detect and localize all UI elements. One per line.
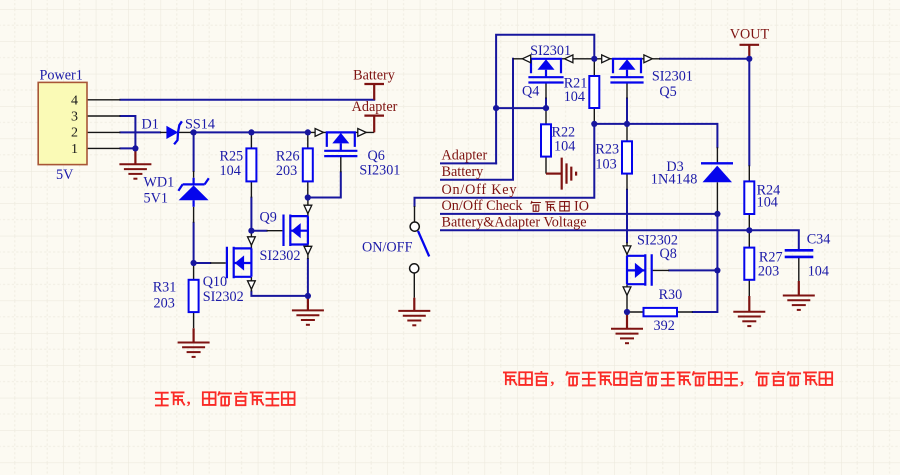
svg-text:3: 3 <box>71 110 78 125</box>
svg-text:SI2301: SI2301 <box>530 43 571 59</box>
svg-text:VOUT: VOUT <box>730 27 770 43</box>
svg-text:R30: R30 <box>659 287 683 303</box>
svg-text:203: 203 <box>276 163 297 179</box>
svg-text:103: 103 <box>595 157 616 173</box>
svg-text:SI2301: SI2301 <box>652 69 693 85</box>
svg-text:On/Off Key: On/Off Key <box>442 182 518 198</box>
svg-text:R23: R23 <box>595 142 619 158</box>
svg-text:2: 2 <box>71 126 78 141</box>
svg-text:WD1: WD1 <box>144 175 175 191</box>
svg-text:Q5: Q5 <box>659 84 676 100</box>
svg-text:,: , <box>187 391 191 408</box>
svg-text:,: , <box>740 371 744 388</box>
svg-text:104: 104 <box>554 139 575 155</box>
svg-text:Q6: Q6 <box>368 148 385 164</box>
svg-text:C34: C34 <box>807 232 831 248</box>
svg-text:Q10: Q10 <box>203 274 227 290</box>
svg-text:IO: IO <box>574 198 589 214</box>
svg-text:392: 392 <box>654 318 675 334</box>
svg-text:Q9: Q9 <box>260 209 277 225</box>
svg-text:5V: 5V <box>56 167 74 183</box>
svg-text:SI2301: SI2301 <box>359 163 400 179</box>
svg-text:Adapter: Adapter <box>442 147 488 163</box>
svg-text:SS14: SS14 <box>185 117 215 133</box>
svg-text:Battery: Battery <box>353 67 396 83</box>
svg-text:D1: D1 <box>142 117 159 133</box>
svg-text:Battery: Battery <box>442 164 485 180</box>
svg-text:104: 104 <box>808 264 829 280</box>
svg-text:5V1: 5V1 <box>144 191 168 207</box>
svg-text:SI2302: SI2302 <box>203 289 244 305</box>
svg-text:Power1: Power1 <box>40 68 83 84</box>
svg-text:Adapter: Adapter <box>352 99 398 115</box>
svg-text:203: 203 <box>758 264 779 280</box>
svg-text:104: 104 <box>757 195 778 211</box>
svg-text:Battery&Adapter Voltage: Battery&Adapter Voltage <box>442 214 587 230</box>
svg-text:On/Off Check: On/Off Check <box>442 198 524 214</box>
svg-text:203: 203 <box>154 296 175 312</box>
svg-text:,: , <box>550 371 554 388</box>
svg-text:104: 104 <box>564 89 585 105</box>
svg-text:Q4: Q4 <box>522 84 539 100</box>
svg-text:4: 4 <box>71 93 78 108</box>
svg-text:SI2302: SI2302 <box>260 248 301 264</box>
svg-text:ON/OFF: ON/OFF <box>362 240 413 256</box>
svg-text:Q8: Q8 <box>660 246 677 262</box>
svg-text:1N4148: 1N4148 <box>651 172 698 188</box>
svg-text:1: 1 <box>71 142 78 157</box>
svg-text:R31: R31 <box>153 280 177 296</box>
svg-text:104: 104 <box>220 163 241 179</box>
